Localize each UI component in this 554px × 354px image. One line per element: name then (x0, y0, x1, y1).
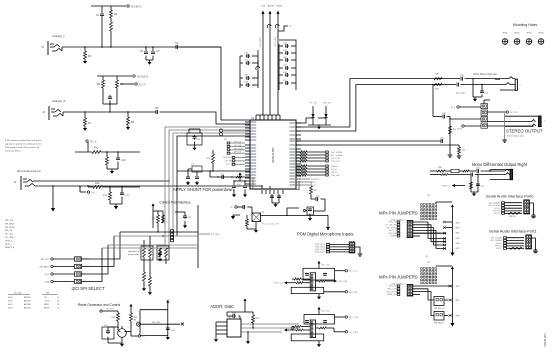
mpx1 left padstack (397, 221, 400, 223)
svg-text:PDM_DAT1: PDM_DAT1 (315, 251, 325, 254)
selfboot box left wire (139, 310, 141, 336)
FET output wire right (261, 214, 329, 216)
svg-text:AnalogIn_R: AnalogIn_R (52, 99, 66, 103)
reset node wires (117, 321, 119, 330)
ground bar hp rail (449, 154, 451, 156)
resistor R47 vertical (310, 186, 313, 194)
svg-text:MPx PIN JUMPERS: MPx PIN JUMPERS (379, 210, 418, 215)
svg-text:Control Port Interface: Control Port Interface (159, 200, 191, 204)
mic2 right resistor (319, 327, 326, 329)
off-page arrow down (52, 186, 54, 208)
svg-text:Serial Audio Interface-Port1: Serial Audio Interface-Port1 (489, 229, 537, 234)
svg-text:pullup enable: pullup enable (128, 254, 139, 256)
svg-text:MOSI: MOSI (44, 308, 50, 310)
IC left pin name texts (251, 121, 257, 122)
mic2 gray wires from eeprom (285, 323, 299, 325)
gray bus under IC going right (253, 177, 299, 190)
svg-text:ADC_SDATA0: ADC_SDATA0 (331, 154, 343, 157)
mic1 pwr arrow (318, 264, 320, 267)
padstack SAI0 (326, 151, 329, 153)
svg-text:MIC_DAT: MIC_DAT (349, 291, 358, 294)
svg-text:20049-001: 20049-001 (543, 333, 547, 347)
wire branch down to stereo block (432, 85, 434, 117)
svg-text:MP0_SW: MP0_SW (234, 142, 242, 144)
resistor R20 vertical (212, 154, 215, 163)
svg-text:RESET_B: RESET_B (5, 247, 15, 249)
svg-text:ADDR1: ADDR1 (24, 300, 32, 303)
svg-text:MIC_DAT1: MIC_DAT1 (349, 331, 358, 334)
inline box F1 (451, 169, 459, 172)
resistor R44 below (246, 219, 249, 226)
resistor R51 (458, 147, 461, 154)
ground bar jack (504, 139, 506, 141)
svg-text:49.9: 49.9 (453, 129, 457, 131)
capacitor C36 (456, 84, 458, 86)
wire IC bottom pins down (271, 194, 273, 203)
svg-text:SPARE: SPARE (391, 235, 398, 238)
resistor R38 (437, 170, 445, 172)
svg-text:Mounting Holes: Mounting Holes (513, 23, 538, 27)
svg-text:1V8: 1V8 (166, 300, 169, 302)
svg-text:0.1uF: 0.1uF (171, 330, 177, 332)
cp pull resistor R41 (162, 215, 165, 223)
selfboot box top wire (140, 309, 168, 311)
svg-text:1V8_AVDD: 1V8_AVDD (259, 36, 262, 47)
wire eeprom top (227, 311, 245, 313)
jack J6 contacts (532, 120, 536, 122)
svg-text:ADDR: 0x50: ADDR: 0x50 (210, 304, 234, 309)
svg-text:x: x (516, 174, 517, 176)
svg-text:MTH4: MTH4 (539, 33, 544, 35)
svg-text:MIC_CLK: MIC_CLK (349, 271, 358, 273)
capacitor C8 series input2 (155, 111, 157, 113)
svg-text:R10: R10 (94, 147, 99, 150)
svg-text:GP0: GP0 (456, 222, 460, 224)
padstack SAI1 (326, 165, 329, 167)
port0 right block (524, 200, 530, 214)
eeprom left pins (216, 321, 227, 323)
pdm wires (330, 243, 350, 245)
ground micbias filter (309, 214, 311, 218)
svg-text:U1: U1 (251, 116, 255, 120)
svg-text:SELFBOOT: SELFBOOT (311, 179, 321, 181)
resistor R12 series mono (93, 186, 102, 189)
capacitor C55 box (102, 327, 114, 339)
svg-text:MTH1: MTH1 (503, 33, 508, 35)
port1 right stub (532, 238, 536, 250)
svg-text:PD_powerdown_SW: PD_powerdown_SW (262, 224, 279, 226)
ground below R3 (84, 59, 86, 61)
mic1 outer box (303, 268, 335, 280)
capacitor C30 boxed (187, 133, 202, 145)
svg-text:ADAU1787: ADAU1787 (271, 147, 275, 163)
selfboot box bottom wire (140, 335, 168, 337)
svg-text:SPI_SEL: SPI_SEL (225, 161, 232, 163)
svg-text:C55: C55 (104, 325, 107, 327)
svg-text:DVDD: DVDD (276, 6, 283, 8)
left cap bank row2 (240, 62, 243, 64)
svg-text:SPI_CLK: SPI_CLK (5, 220, 14, 222)
svg-text:DAC_SDATA0: DAC_SDATA0 (488, 202, 500, 205)
mpx1 row wires and corners (413, 222, 446, 238)
port0 series resistor (508, 212, 520, 214)
svg-text:PDM_DAT1: PDM_DAT1 (331, 174, 340, 177)
capacitor C1 (101, 6, 103, 13)
port0 padstack (502, 202, 505, 204)
mic2 lower box (291, 334, 324, 341)
mic1 right resistor (319, 280, 326, 282)
cp cap C52 (184, 215, 186, 217)
svg-text:JP1: JP1 (224, 139, 227, 141)
svg-text:AUX_SW: AUX_SW (389, 232, 397, 235)
resistor R50 on rail (449, 126, 452, 134)
node MICBIAS top wire (91, 5, 126, 7)
pdm right gnd (355, 247, 360, 254)
mic1 ground (318, 294, 320, 296)
wire C1 down to input net (101, 24, 103, 47)
port0 ground circle (532, 215, 535, 218)
wire big loop inner (296, 85, 433, 132)
op-amp U1 codec ADAU1787 body (250, 120, 296, 189)
ground caps input1 (149, 60, 151, 62)
mic1 lower box (291, 287, 324, 293)
svg-text:R12: R12 (95, 182, 100, 185)
powerdown caps pair (233, 181, 235, 185)
svg-text:J12: J12 (427, 262, 430, 264)
power rail 3 (277, 11, 280, 15)
connector MB test (303, 209, 305, 211)
wire R47 to C53 (311, 194, 315, 199)
mpx1 right rail (451, 209, 453, 253)
cp bus line D (160, 247, 198, 249)
svg-text:MP2_MODE: MP2_MODE (234, 148, 244, 150)
svg-text:Stereo Output Jack: Stereo Output Jack (507, 135, 524, 138)
resistor R41 drop (470, 182, 473, 189)
cp lower resistors to gnd (143, 257, 145, 272)
capacitor C47 drop (477, 183, 479, 185)
cp header padstack (170, 230, 173, 232)
mpx2 jumper resistors (449, 285, 452, 287)
svg-text:GP2: GP2 (456, 232, 460, 234)
resistor R2 lower (110, 22, 113, 31)
svg-text:MP_SEL_B: MP_SEL_B (434, 323, 444, 325)
wire drops from input net (472, 78, 473, 79)
capacitor C10 to ground (117, 152, 119, 158)
cp pwr arrow (152, 206, 154, 210)
svg-text:C50: C50 (237, 184, 240, 186)
capacitor C44 series on HPL (440, 140, 442, 142)
connector PD input (235, 206, 237, 208)
testpoint TP_L (457, 106, 459, 108)
transistor Q1 (118, 329, 127, 338)
svg-text:x: x (520, 85, 521, 87)
svg-text:MONO_N: MONO_N (442, 186, 451, 188)
svg-text:1V8_DVDD: 1V8_DVDD (275, 36, 277, 47)
wire stubs to IC bottom (261, 186, 263, 189)
power rail 2 (269, 11, 272, 15)
ferrite bead FB2 (275, 24, 279, 28)
svg-text:J10: J10 (427, 195, 430, 197)
selfboot X mark (181, 323, 184, 326)
svg-text:GPIO_0: GPIO_0 (5, 240, 13, 242)
svg-text:Technical Sheet: Technical Sheet (5, 150, 21, 153)
svg-text:J11: J11 (426, 256, 429, 258)
svg-text:ADDR0: ADDR0 (24, 296, 32, 299)
cp cap below header (159, 248, 161, 252)
wire corner to IC AINR (160, 112, 250, 124)
svg-text:R40: R40 (152, 218, 155, 220)
capacitor C35 (460, 78, 462, 80)
IC left pin stubs upper (245, 121, 250, 123)
port1 padstack (504, 237, 507, 239)
svg-text:R47: R47 (314, 190, 317, 192)
svg-text:DMIC_CLK: DMIC_CLK (274, 283, 284, 285)
svg-text:FSYNC1: FSYNC1 (331, 172, 338, 174)
port0 wires (505, 202, 523, 204)
svg-text:GP5: GP5 (456, 248, 460, 250)
wire input right main (63, 111, 156, 113)
svg-text:TP_R: TP_R (457, 129, 462, 131)
capacitor C12 to ground (121, 187, 123, 193)
svg-text:APPLY SHUNT FOR powerdown: APPLY SHUNT FOR powerdown (173, 187, 234, 192)
wire stack to jack ring (488, 125, 534, 127)
IC right pin stubs (296, 122, 301, 124)
svg-text:GP1: GP1 (456, 227, 460, 229)
long wire HPR (296, 144, 448, 146)
ground HP net (111, 169, 113, 171)
mpx1 jumper block (407, 220, 413, 237)
wire hpr to rail2 (448, 144, 459, 146)
svg-text:C44: C44 (440, 138, 443, 140)
mpx2 matrix top wire (436, 265, 452, 267)
stack top wire (483, 100, 485, 104)
vertical rail hp (449, 117, 451, 156)
eeprom left gnd (215, 338, 217, 339)
wire hp stack left2 (450, 118, 481, 120)
selfboot ground (167, 336, 169, 338)
svg-text:Serial Audio Interface-Port0: Serial Audio Interface-Port0 (486, 194, 534, 199)
mic2 element column (310, 320, 315, 338)
mpx1 matrix top wire (436, 201, 452, 203)
eeprom right pins gray (241, 323, 285, 325)
svg-text:DAC_SDATA0: DAC_SDATA0 (331, 151, 343, 154)
mic2 pwr arrow (318, 310, 320, 313)
mpx2 row wires (413, 285, 452, 287)
left cap bank row4 (240, 84, 243, 86)
svg-text:MP_SEL_A: MP_SEL_A (434, 307, 444, 310)
wire hp stack left3 (462, 125, 464, 127)
capacitor C45 series (476, 170, 478, 172)
left cap bank row1 (240, 55, 243, 57)
svg-text:Installed R w/ I2C: Installed R w/ I2C (128, 250, 143, 253)
capacitor C40 series (442, 116, 444, 118)
svg-text:CCLK: CCLK (44, 301, 50, 303)
svg-text:SPARE_SW: SPARE_SW (387, 293, 397, 296)
mic2 wire to MIC_DAT1 connector (334, 331, 345, 333)
power rail 1 (262, 11, 265, 15)
IC right pin name texts (290, 122, 296, 123)
branch wire to PV label (278, 26, 288, 31)
svg-text:2.2k: 2.2k (462, 150, 466, 152)
svg-text:I2C/ SPI SELECT: I2C/ SPI SELECT (71, 286, 104, 291)
IC left pin stubs lower (245, 144, 250, 146)
resistor R8 to ground right (127, 112, 129, 117)
svg-text:C52: C52 (188, 217, 191, 219)
left cap bank row3 (240, 77, 243, 79)
svg-text:C10: C10 (121, 159, 126, 162)
resistor R5 (102, 76, 104, 80)
mpx1 ground (450, 253, 454, 257)
svg-text:MTH3: MTH3 (527, 33, 532, 35)
wire to FET (251, 207, 253, 213)
capacitor C54 boxed (307, 207, 314, 215)
mpx1 top matrix (421, 204, 423, 206)
component row below y177 (210, 176, 250, 178)
resistor R11 to ground (106, 157, 109, 165)
wire loop right top stub (296, 118, 313, 123)
jack J7 contacts (505, 169, 509, 171)
ground bar rail2 (458, 155, 460, 157)
svg-text:C45: C45 (476, 168, 479, 170)
svg-text:HPL_SW: HPL_SW (309, 103, 317, 105)
svg-text:SPI_CLK: SPI_CLK (41, 259, 50, 261)
wire HP net (75, 151, 92, 153)
mpx2 jumper block (407, 284, 413, 296)
mono diff vertical drops (470, 174, 471, 175)
cp rn2 bottoms (159, 252, 161, 257)
capacitor C7 node (103, 103, 117, 105)
svg-text:BCLK_FS0: BCLK_FS0 (331, 158, 340, 160)
svg-text:MCLK_IN: MCLK_IN (389, 230, 397, 232)
svg-text:CLK_JMP_SW: CLK_JMP_SW (385, 225, 397, 227)
svg-text:C47: C47 (481, 186, 484, 188)
mic1 wire to MIC_CLK connector (335, 270, 345, 272)
wire gray bus IC left line1 (155, 127, 250, 245)
selfboot wire right (141, 323, 181, 325)
resistor R39 (463, 170, 469, 172)
svg-text:R38: R38 (438, 167, 441, 169)
capacitor C2 C3 to ground (145, 47, 147, 51)
cp bus line A (140, 231, 198, 233)
svg-text:R52: R52 (256, 318, 259, 320)
mpx2 left padstack (397, 285, 400, 287)
svg-text:PDM Digital Microphone Inputs: PDM Digital Microphone Inputs (297, 231, 353, 236)
svg-text:Mono Analog Input Left: Mono Analog Input Left (17, 170, 41, 173)
eeprom right gnd (247, 332, 249, 340)
mic2 left resistor row1 (294, 325, 301, 327)
svg-text:GP4: GP4 (456, 243, 460, 245)
mic2 wire to MIC_CLK1 connector (335, 316, 345, 318)
svg-text:MP4_SW: MP4_SW (389, 286, 397, 288)
svg-text:IN2_P: IN2_P (139, 84, 146, 87)
connector reset in (100, 310, 102, 312)
TVS diode D1 (312, 106, 314, 114)
jack J3 mono input (20, 176, 22, 190)
connector dual circles on bus (219, 129, 222, 132)
right cap bank rails (278, 44, 280, 90)
select connector circles and boxes (51, 258, 53, 260)
resistor R6 (116, 76, 118, 80)
mpx2 ground (450, 323, 454, 327)
svg-text:22R 22R: 22R 22R (509, 216, 516, 218)
svg-text:GP3: GP3 (456, 238, 460, 240)
svg-text:STEREO OUTPUT: STEREO OUTPUT (506, 129, 543, 134)
cp bus line C (155, 244, 198, 246)
svg-text:DMIC1_SW: DMIC1_SW (387, 289, 397, 291)
svg-text:MPx PIN JUMPERS: MPx PIN JUMPERS (379, 274, 418, 279)
svg-text:GP8: GP8 (456, 316, 460, 318)
wire C53 corner down (320, 199, 325, 207)
svg-text:ADDR0: ADDR0 (24, 303, 32, 306)
svg-text:MTH2: MTH2 (515, 33, 520, 35)
cp bus dots (157, 231, 158, 232)
mic1 element column (310, 273, 315, 291)
cp bus line B (140, 235, 198, 237)
wire gray bus IC left line3 (173, 133, 250, 240)
transistor Q2 FET box (252, 213, 261, 222)
jumper padstack selfboot group (232, 157, 235, 159)
eeprom U3 body (227, 319, 241, 337)
svg-text:MICBIAS: MICBIAS (131, 5, 142, 9)
IC top pin stubs (255, 115, 257, 120)
jumper stack 4 boxes (481, 104, 488, 109)
reset output connector (130, 330, 132, 336)
jack J6 housing top (505, 115, 539, 117)
svg-text:SPI_MISO: SPI_MISO (5, 223, 15, 225)
mpx2 jumper box1 (434, 297, 444, 306)
svg-text:I2C_SDA: I2C_SDA (5, 236, 14, 239)
connector selfboot circle (137, 322, 141, 326)
wire junction input2 (109, 104, 111, 112)
svg-text:MP1_SW: MP1_SW (234, 145, 242, 147)
svg-text:SPI_MISO: SPI_MISO (211, 234, 220, 236)
svg-text:R46: R46 (134, 317, 137, 319)
mpx2 top matrix (421, 268, 423, 270)
mic1 wire to MIC_DAT connector (324, 291, 345, 293)
svg-text:SPI_MISO: SPI_MISO (40, 267, 50, 269)
svg-text:Mono Stereo Input Left: Mono Stereo Input Left (473, 73, 497, 76)
ferrite FB3 on left bank (256, 66, 260, 70)
mic1 left resistor row1 (294, 278, 301, 280)
resistor R3 to ground (84, 47, 86, 51)
svg-text:SPI: SPI (46, 293, 50, 295)
resistor group SAI1 (296, 165, 300, 167)
wire big loop outer to top right input (296, 79, 433, 127)
mic1 right arrow (334, 280, 337, 283)
svg-text:BCLK1: BCLK1 (331, 169, 337, 171)
jack J6 housing bottom (505, 125, 534, 127)
svg-text:SDA: SDA (45, 281, 50, 284)
capacitor C51 (241, 206, 244, 208)
mpx1 jumper resistors at rail (443, 221, 446, 223)
capacitor C46 series (470, 174, 472, 176)
resistor group SAI0 (296, 151, 300, 153)
svg-text:R45: R45 (112, 317, 115, 319)
resistor R7 to ground (84, 112, 86, 118)
ground IC bottom (272, 202, 279, 204)
wire mono input bottom (35, 185, 262, 187)
svg-text:Reset Generator and Control: Reset Generator and Control (78, 303, 121, 307)
svg-text:HP_DET: HP_DET (510, 112, 519, 114)
svg-text:SPI_MOSI: SPI_MOSI (5, 227, 15, 229)
svg-text:SELFBOOT: SELFBOOT (223, 157, 232, 159)
crystal Y1 box (192, 166, 202, 172)
svg-text:BCLK0: BCLK0 (494, 208, 500, 210)
select wires right and risers (82, 232, 121, 259)
svg-text:MP0_SW: MP0_SW (389, 222, 397, 224)
svg-text:Mono Differential Output Right: Mono Differential Output Right (472, 162, 528, 167)
resistor R46 (130, 309, 132, 313)
